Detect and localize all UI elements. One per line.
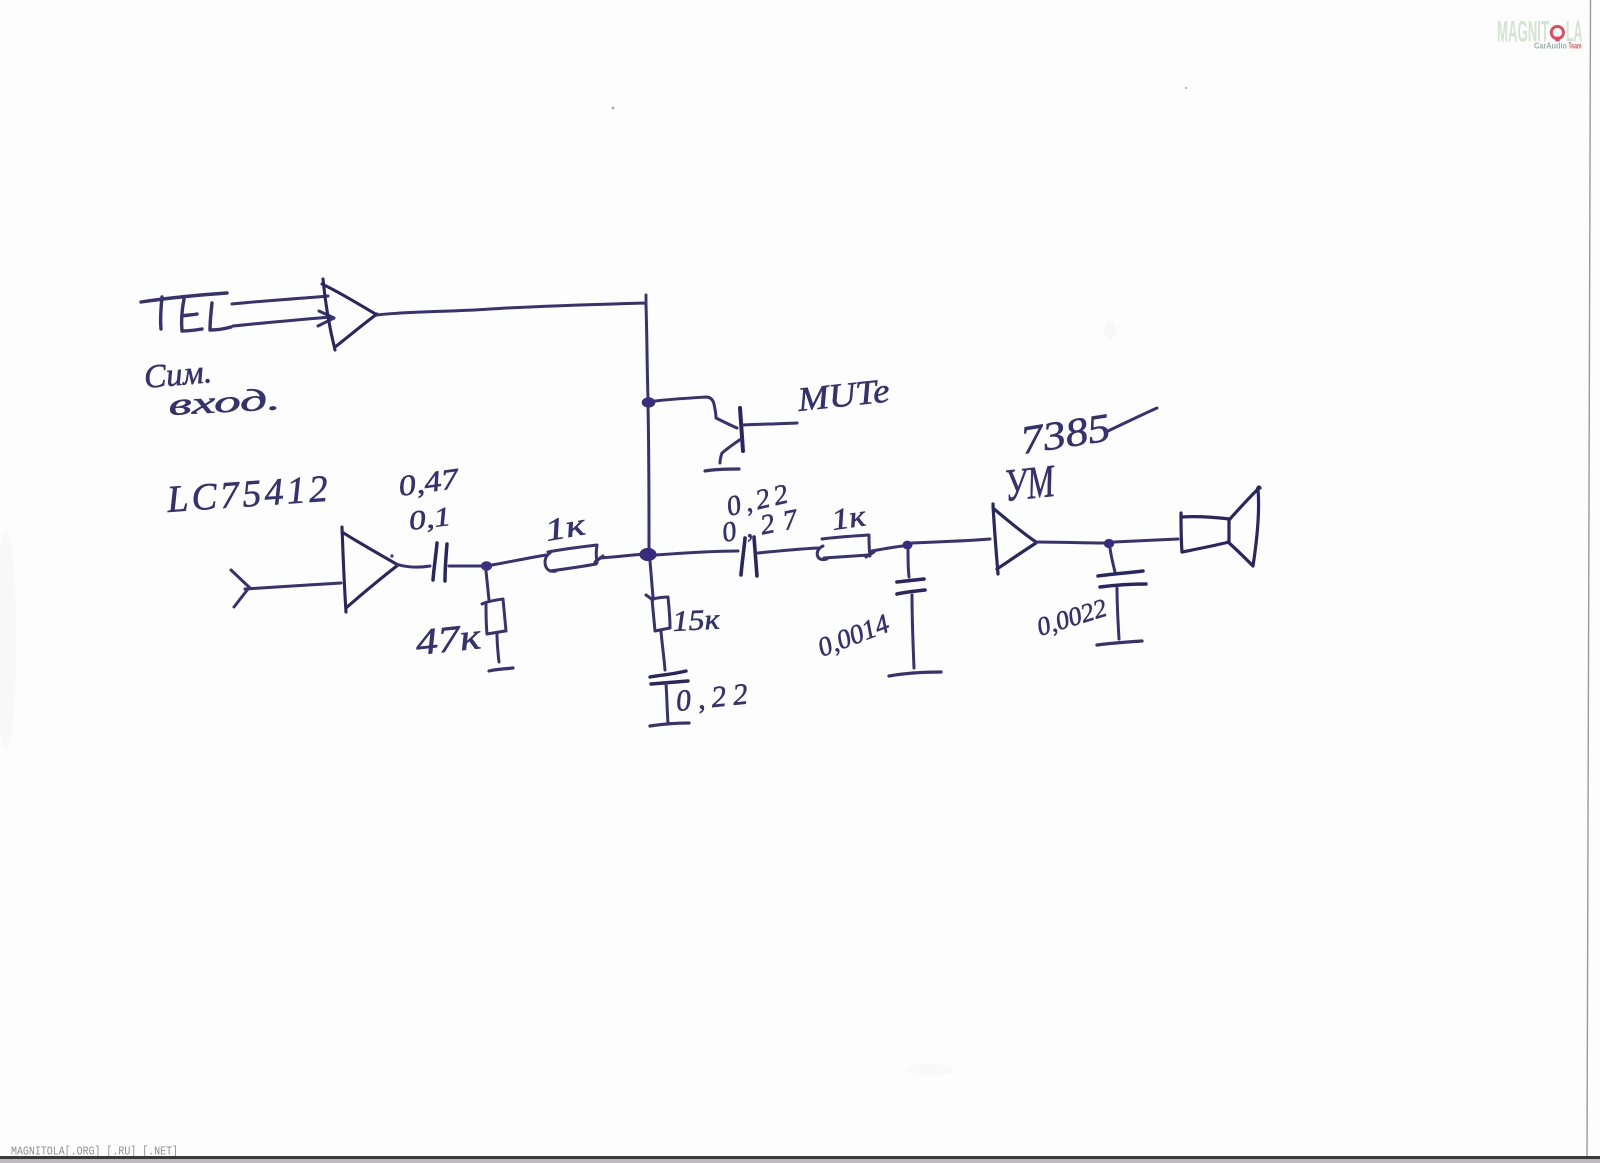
resistor R1 1k box [545, 545, 603, 571]
transistor Q1 collector lead to MUTE [743, 423, 797, 425]
wire corner down to node A [646, 305, 648, 398]
speaker LS1 horn [1228, 487, 1260, 566]
svg-text:Team: Team [1569, 42, 1582, 51]
capacitor C1 0,1 [433, 543, 447, 581]
wire U2 out to C1 [396, 564, 430, 567]
node C junction dot [481, 561, 492, 571]
wire U1 output to corner [377, 295, 646, 315]
op-amp U3 power amp [993, 504, 1036, 574]
wire node B to C2 [656, 551, 738, 555]
wire C2 to R3 [758, 548, 818, 553]
ground for C4 [889, 672, 941, 676]
wire node A down to node B [648, 406, 649, 548]
label TEL [141, 293, 231, 331]
node A junction dot [642, 397, 656, 407]
paper smudges [0, 320, 1116, 1076]
input arrow chevron [231, 570, 250, 607]
wire node E to speaker [1114, 539, 1178, 542]
svg-text:0,1: 0,1 [407, 501, 452, 536]
svg-text:47к: 47к [414, 616, 484, 664]
node D junction dot [903, 541, 913, 550]
ground for Q1 [705, 469, 739, 471]
wire C5 to ground [1117, 588, 1119, 639]
wire C4 to ground [912, 595, 914, 668]
svg-text:УМ: УМ [1002, 455, 1059, 511]
wire R2 down to ground [497, 634, 499, 662]
wire R4 to C3 [661, 631, 665, 670]
wire node B down to R4 [650, 561, 653, 597]
speaker LS1 box [1181, 513, 1230, 552]
footer [0, 1146, 1600, 1163]
wire node D down to C4 [908, 549, 909, 577]
op-amp U1 TEL buffer [322, 279, 377, 350]
transistor Q1 base bar [740, 408, 743, 451]
node E junction dot [1104, 539, 1114, 548]
resistor R2 47k box [482, 599, 506, 634]
wire U3 to node E [1036, 542, 1104, 543]
capacitor C2 plates [741, 537, 757, 576]
ground for R2 [489, 668, 513, 671]
resistor R3 1k box [817, 535, 874, 560]
wire TEL input line 1 [232, 296, 328, 304]
wire node C down to R2 [486, 571, 489, 600]
node B main junction dot [639, 548, 656, 561]
wire C1 to node C [449, 565, 481, 568]
ink speck top middle [612, 107, 615, 110]
wire R1 to node B [600, 554, 644, 558]
stroke after 7385 [1108, 408, 1157, 431]
ground for C3 [650, 723, 689, 726]
svg-text:15к: 15к [672, 604, 721, 638]
wire node D to U3 [912, 539, 990, 543]
resistor R4 15k box [646, 595, 670, 631]
op-amp U2 LC75412 buffer [342, 527, 398, 612]
wire input to U2 [245, 583, 341, 589]
transistor Q1 emitter [720, 439, 741, 463]
svg-text:1к: 1к [829, 499, 868, 537]
capacitor C4 plates [897, 579, 925, 594]
svg-text:вход.: вход. [168, 381, 282, 422]
wire TEL input line 2 with arrowhead [233, 311, 334, 326]
right scan edge line [1587, 0, 1591, 1163]
capacitor C3 0,22 plates [650, 671, 688, 684]
watermark logo MAGNITOLA [1497, 16, 1583, 51]
ink speck near U2 tip [390, 554, 393, 557]
capacitor C5 plates [1098, 571, 1146, 587]
ink speck top right [1185, 87, 1187, 89]
wire node C to R1 [492, 555, 546, 565]
svg-text:1к: 1к [542, 506, 588, 548]
svg-text:CarAudio: CarAudio [1534, 42, 1567, 51]
wire C3 to ground [666, 684, 668, 723]
wire R3 to node D [872, 546, 903, 551]
ground for C5 [1097, 641, 1142, 645]
wire node E down to C5 [1110, 548, 1115, 572]
wire node A to transistor base [655, 397, 737, 428]
